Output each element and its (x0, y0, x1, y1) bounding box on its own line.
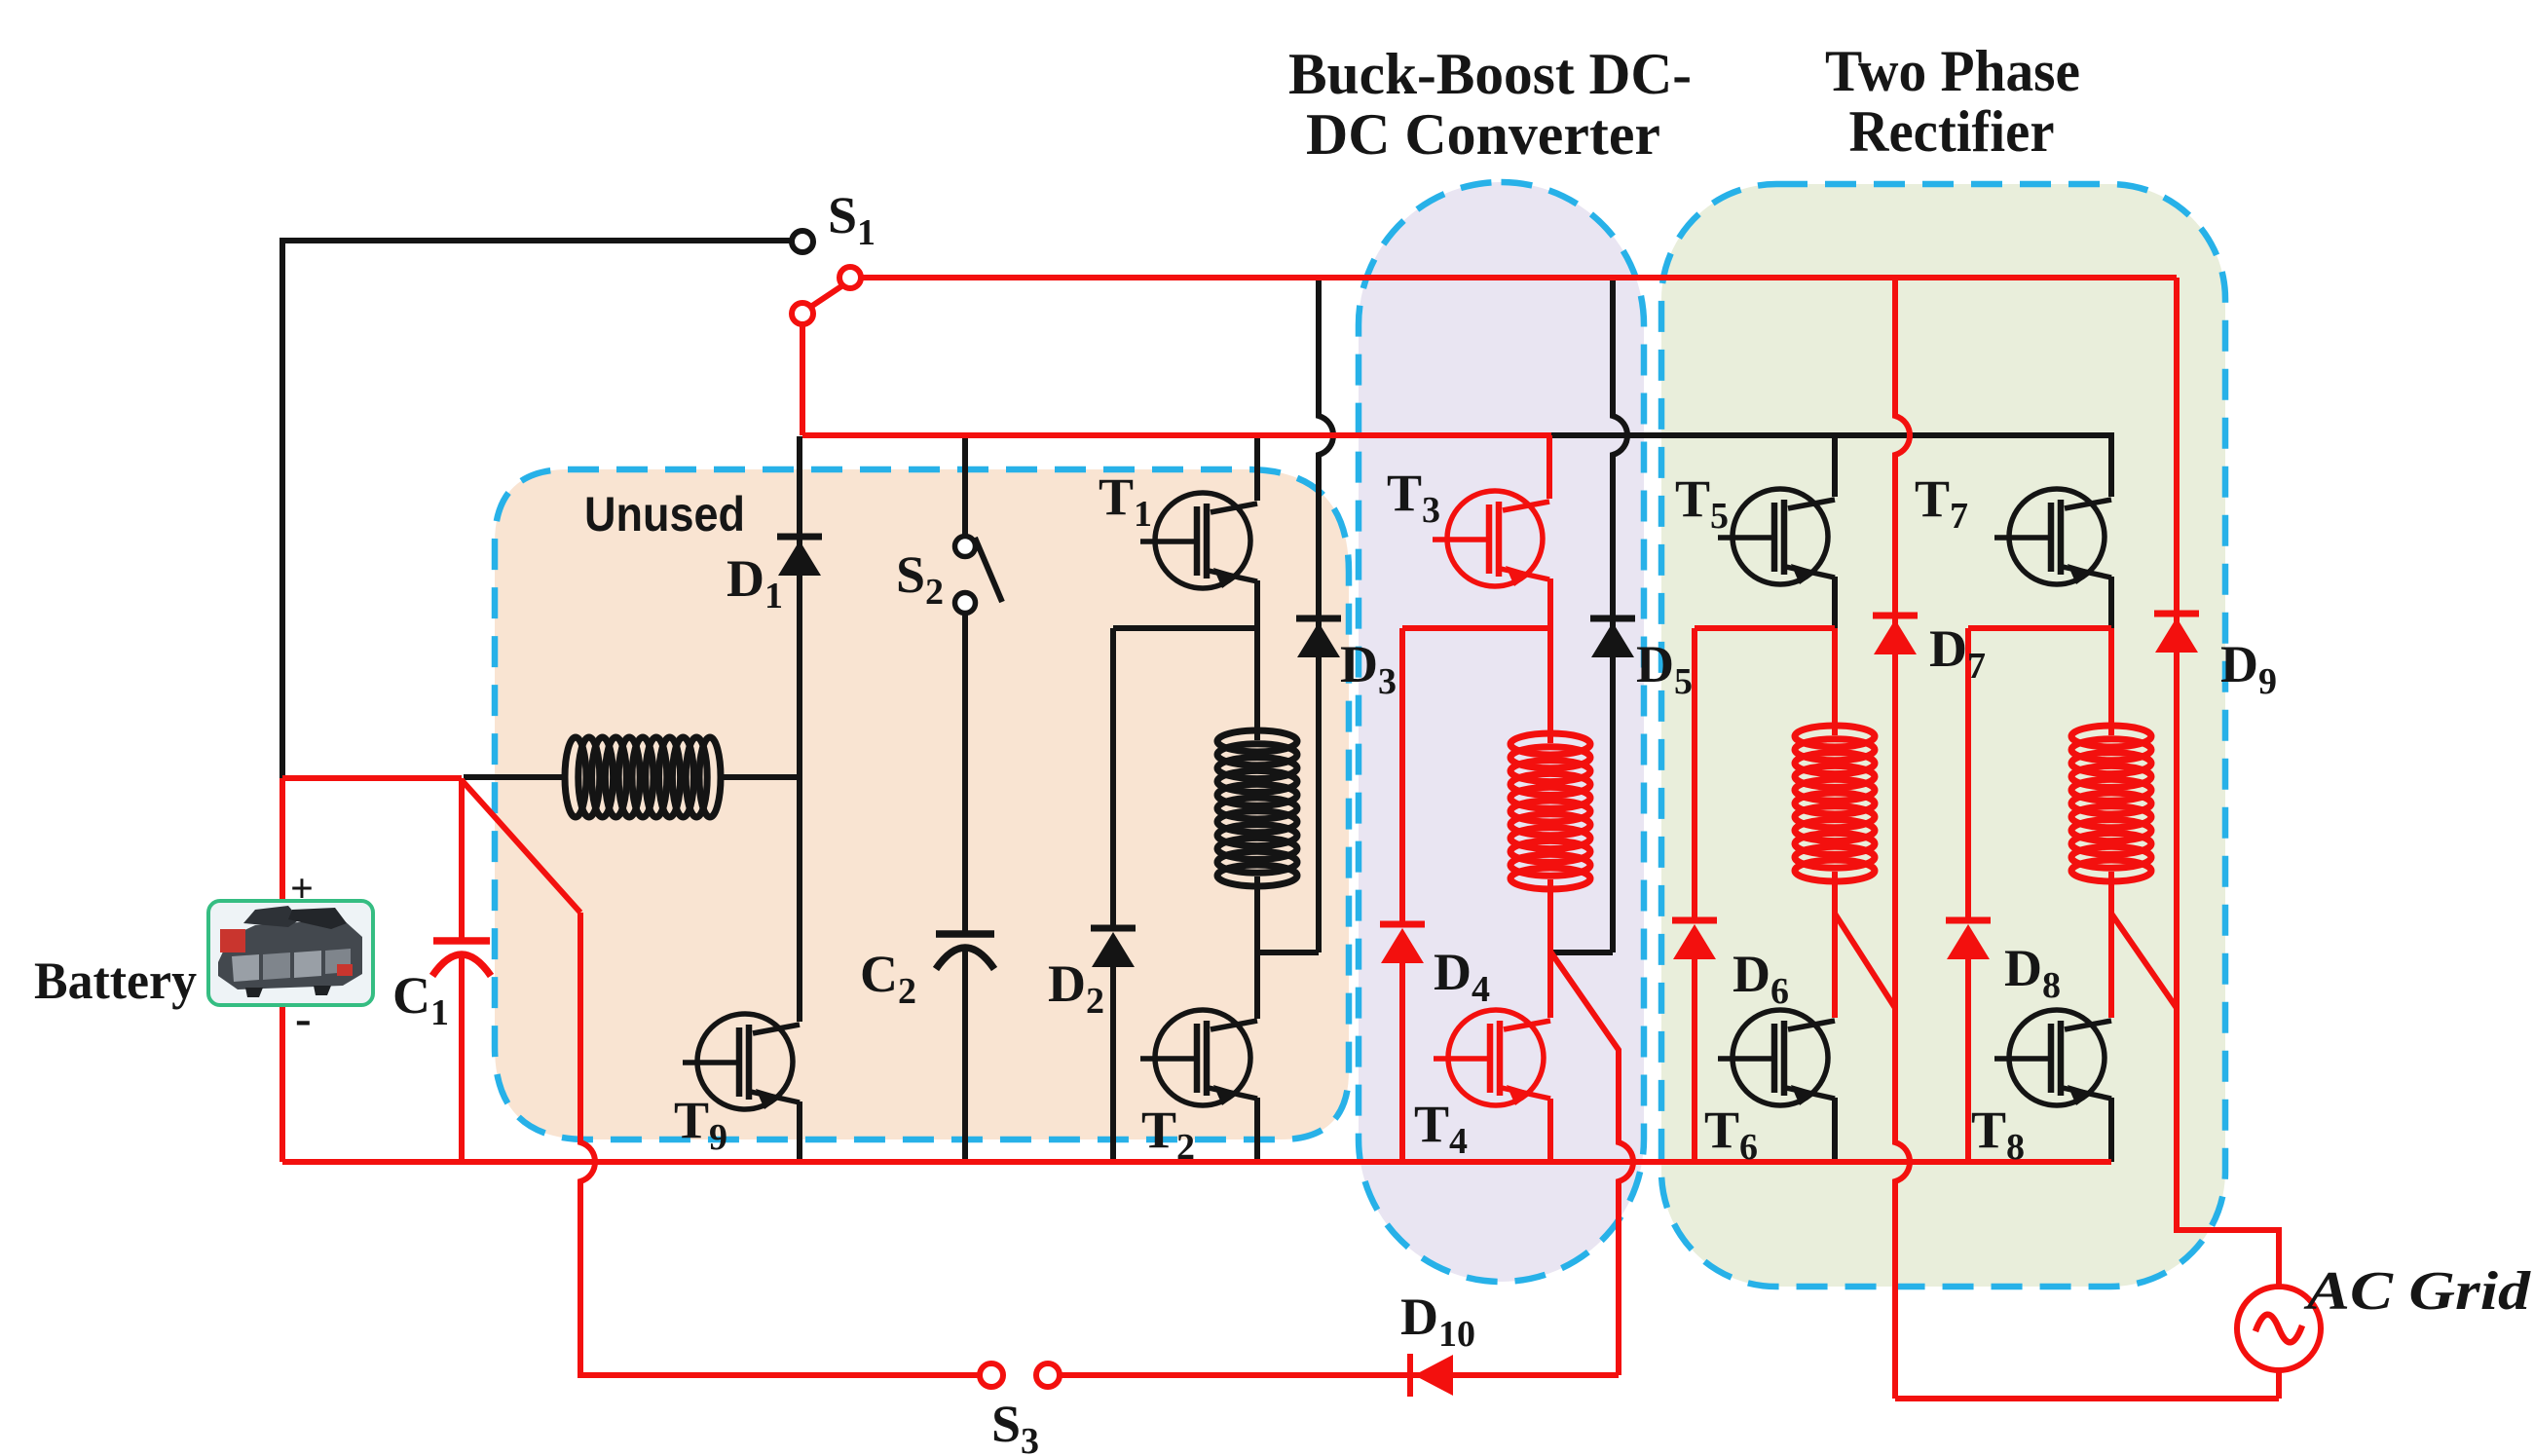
WIRES-BLACK (282, 241, 2111, 1162)
wire T8 collector (2108, 914, 2114, 1018)
switch S3 (980, 1363, 1060, 1387)
svg-text:C1: C1 (392, 966, 449, 1033)
diode D8 (1946, 920, 1991, 959)
wire S2 branch top (962, 436, 968, 536)
wire leg1 emitter node loop (1695, 625, 1835, 631)
wire bus2 red segment (802, 432, 1551, 438)
inductor L2 (black vertical coil) (1217, 730, 1297, 886)
transistor T5 (1718, 489, 1835, 584)
wire S3 to D10 segment (1061, 1372, 1619, 1378)
transistor T1 (1140, 493, 1257, 588)
wire leg1 diagonal (1835, 914, 1895, 1008)
diode D1 (777, 537, 822, 576)
wire D6 branch (1692, 628, 1697, 920)
wire diagonal to S3 branch (462, 780, 580, 913)
transistor T7 (1994, 489, 2111, 584)
svg-text:DC Converter: DC Converter (1306, 102, 1660, 167)
wire coil L5 leads (2108, 628, 2114, 735)
diode D3 (1296, 618, 1341, 657)
svg-text:Battery: Battery (34, 952, 197, 1010)
AC source (2237, 1287, 2321, 1370)
wire T5 emitter (1832, 577, 1838, 628)
wire C1 top lead (459, 778, 465, 941)
wire coil L1 leads (464, 774, 566, 780)
wire T3 collector (1546, 435, 1552, 499)
diode D2 (1091, 928, 1136, 967)
diode D5 (1590, 618, 1635, 657)
svg-text:Two Phase: Two Phase (1825, 39, 2080, 103)
inductor L5 (red vertical coil, leg2) (2071, 726, 2151, 881)
wire T7 emitter (2108, 577, 2114, 628)
transistor T2 (1140, 1010, 1257, 1105)
diode D10 (pointing left) (1410, 1354, 1453, 1397)
wire T1 emitter node (1113, 580, 1257, 628)
wire battery + lead (279, 778, 285, 901)
svg-text:D10: D10 (1400, 1288, 1475, 1355)
wire S2 to C2 (962, 614, 968, 931)
capacitor C1 (red) (432, 941, 491, 976)
transistor T6 (1718, 1010, 1835, 1105)
wire D2 branch (1110, 628, 1116, 928)
wire T6 emitter to rail (1832, 1098, 1838, 1162)
transistor T8 (1994, 1010, 2111, 1105)
wire T1 collector (1254, 435, 1260, 501)
diode D7 (1873, 616, 1918, 654)
transistor T4 (1434, 1010, 1550, 1105)
capacitor C2 (black) (936, 934, 994, 969)
svg-text:S1: S1 (828, 186, 876, 253)
wire D4 branch (1399, 628, 1405, 924)
wire S3 branch vertical with hop (580, 913, 979, 1375)
WIRES-RED (282, 278, 2279, 1399)
svg-text:Unused: Unused (584, 487, 745, 541)
wire D3 vertical with hop (1319, 278, 1333, 952)
shaded region: Two Phase Rectifier (green) (1661, 184, 2225, 1287)
wire T4 emitter to rail (1547, 1099, 1553, 1162)
inductor L4 (red vertical coil, leg1) (1795, 726, 1875, 881)
wire battery - lead (279, 1005, 285, 1162)
wire coil L3 leads (1547, 628, 1553, 743)
wire battery top (282, 775, 462, 781)
wire T3 emitter node (1402, 579, 1550, 628)
wire D9 vertical (2177, 278, 2279, 1287)
wire leg2 emitter node loop (1968, 625, 2111, 631)
wire AC source bottom lead (2276, 1370, 2282, 1399)
wire D3 bottom link (1257, 950, 1319, 955)
wire S1 feed from battery + (282, 241, 792, 778)
wire T9 emitter to rail (797, 1101, 802, 1162)
wire coil L4 leads (1832, 628, 1838, 735)
wire T4 collector (1547, 952, 1553, 1018)
wire top red bus (861, 275, 2177, 280)
wire D1/T9 branch (797, 436, 802, 1022)
inductor L3 (red vertical coil, buck-boost) (1510, 733, 1590, 889)
svg-text:D9: D9 (2220, 635, 2277, 702)
wire AC bottom link (1895, 1396, 2279, 1401)
switch S2 (955, 537, 1003, 614)
wire T2 emitter to rail (1254, 1098, 1260, 1162)
diode D4 (1380, 924, 1425, 963)
wire leg2 diagonal (2111, 914, 2177, 1008)
shaded region: Buck-Boost DC-DC Converter (lavender pill) (1359, 182, 1644, 1282)
diode D9 (2154, 614, 2199, 653)
wire T6 collector (1832, 914, 1838, 1018)
svg-text:+: + (290, 867, 314, 912)
wire T5 collector (1832, 435, 1838, 497)
wire bus2 black segment (1551, 435, 2111, 497)
wire D5 vertical with hop (1613, 278, 1627, 952)
diode D6 (1672, 920, 1717, 959)
wire S1 lower to bus2 (800, 324, 805, 435)
svg-text:AC Grid: AC Grid (2303, 1261, 2531, 1322)
svg-text:S3: S3 (991, 1395, 1039, 1456)
svg-text:Rectifier: Rectifier (1849, 99, 2055, 164)
wire T4 bypass to D10 with hop (1550, 952, 1633, 1375)
svg-text:-: - (295, 990, 312, 1045)
shaded region: Unused (peach) (495, 469, 1349, 1139)
transistor T3 (1433, 491, 1549, 586)
battery image (208, 901, 373, 1005)
svg-text:Buck-Boost DC-: Buck-Boost DC- (1288, 42, 1692, 106)
wire coil L2 leads (1254, 628, 1260, 740)
wire C1 bottom lead (459, 956, 465, 1162)
inductor L1 (black horizontal coil) (565, 737, 721, 817)
wire D7 vertical with hops (1895, 278, 1910, 1399)
switch S1 (792, 231, 861, 324)
transistor T9 (683, 1014, 800, 1109)
wire D8 branch (1965, 628, 1971, 920)
wire C2 to rail (962, 948, 968, 1162)
wire T8 emitter to rail (2108, 1098, 2114, 1162)
wire D5 bottom link (1552, 950, 1613, 955)
wire bottom rail (282, 1159, 2111, 1165)
